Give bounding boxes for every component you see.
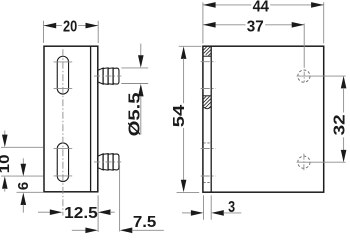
centerline tick S2 bottom arc	[54, 175, 73, 177]
section hatch H2	[199, 94, 217, 114]
dim D5.5 extension lines	[121, 67, 148, 69]
dim 32 dimension line / arrows	[341, 76, 347, 89]
dim 54 dimension line / arrows	[181, 46, 187, 59]
dim 44 extension lines	[202, 2, 204, 43]
strip tick S2 bottom arc	[201, 175, 216, 177]
dim 10 dimension line / arrows	[4, 131, 6, 136]
right view plate inner face	[210, 46, 212, 192]
left view fold edge line	[90, 46, 92, 192]
centerline pin P1	[94, 75, 121, 77]
svg-text:54: 54	[171, 105, 188, 128]
centerline tick S2 top arc	[54, 148, 73, 150]
svg-text:12.5: 12.5	[64, 205, 98, 222]
dim D5.5 dimension line / arrows	[140, 44, 142, 56]
centerline C1 horizontal / ext for 32	[297, 75, 346, 77]
hidden hole C2	[298, 156, 310, 168]
strip slot S2 top dash	[203, 142, 211, 144]
dim 20 extension lines	[43, 21, 45, 43]
slot S1 upper obround	[57, 56, 68, 94]
dim 20 dimension line	[44, 25, 62, 27]
centerline C2 vertical	[303, 154, 305, 171]
dim 6 extension line	[17, 191, 44, 193]
strip tick S1 bottom arc	[201, 88, 216, 90]
vertical centerline through slots	[62, 49, 64, 215]
dim 7.5 extension line at pin tip	[119, 166, 121, 232]
dim 12.5 right extension line	[97, 195, 99, 232]
slot S2 lower obround	[57, 143, 68, 182]
right view outline (44x54 side)	[203, 46, 324, 192]
svg-text:10: 10	[0, 154, 13, 173]
centerline tick S1 bottom arc	[54, 87, 73, 89]
svg-text:44: 44	[253, 0, 269, 15]
strip tick S1 top arc	[201, 61, 216, 63]
dim 12.5 dimension line / arrows	[38, 211, 50, 213]
centerline C2 horizontal / ext for 32	[297, 161, 346, 163]
svg-text:3: 3	[228, 199, 235, 216]
centerline pin P2	[94, 161, 121, 163]
hatch H2 top edge (slot S1 bottom)	[203, 95, 211, 97]
hatch H2 bottom arc	[204, 107, 211, 109]
left view outline (20x54 face)	[44, 46, 98, 192]
svg-text:32: 32	[331, 114, 348, 135]
hatch H1 bottom edge (slot S1 top)	[203, 55, 211, 57]
pin P1 upper ribbed dowel	[98, 68, 119, 85]
hidden hole C1	[298, 70, 310, 82]
dim 54 extension lines	[179, 45, 202, 47]
strip slot S2 bottom dash	[203, 182, 211, 184]
svg-text:6: 6	[15, 182, 32, 190]
svg-text:20: 20	[63, 18, 77, 35]
dim 37 dimension line	[203, 24, 246, 26]
svg-text:Ø5.5: Ø5.5	[127, 92, 144, 136]
dim 3 dimension line / arrows	[182, 212, 192, 214]
dim 6 dimension line / arrows	[22, 158, 24, 164]
centerline tick S1 top arc	[54, 61, 73, 63]
centerline C1 vertical / ext for 37	[303, 24, 305, 68]
dim 7.5 dimension line / arrows	[72, 229, 86, 231]
dim 44 dimension line	[203, 4, 251, 6]
strip tick S2 top arc	[201, 148, 216, 150]
dim 3 extension lines	[203, 195, 205, 219]
svg-text:37: 37	[247, 18, 264, 35]
pin P2 lower ribbed dowel	[98, 154, 119, 171]
dim 10 extension lines	[1, 146, 44, 148]
svg-text:7.5: 7.5	[133, 214, 157, 231]
